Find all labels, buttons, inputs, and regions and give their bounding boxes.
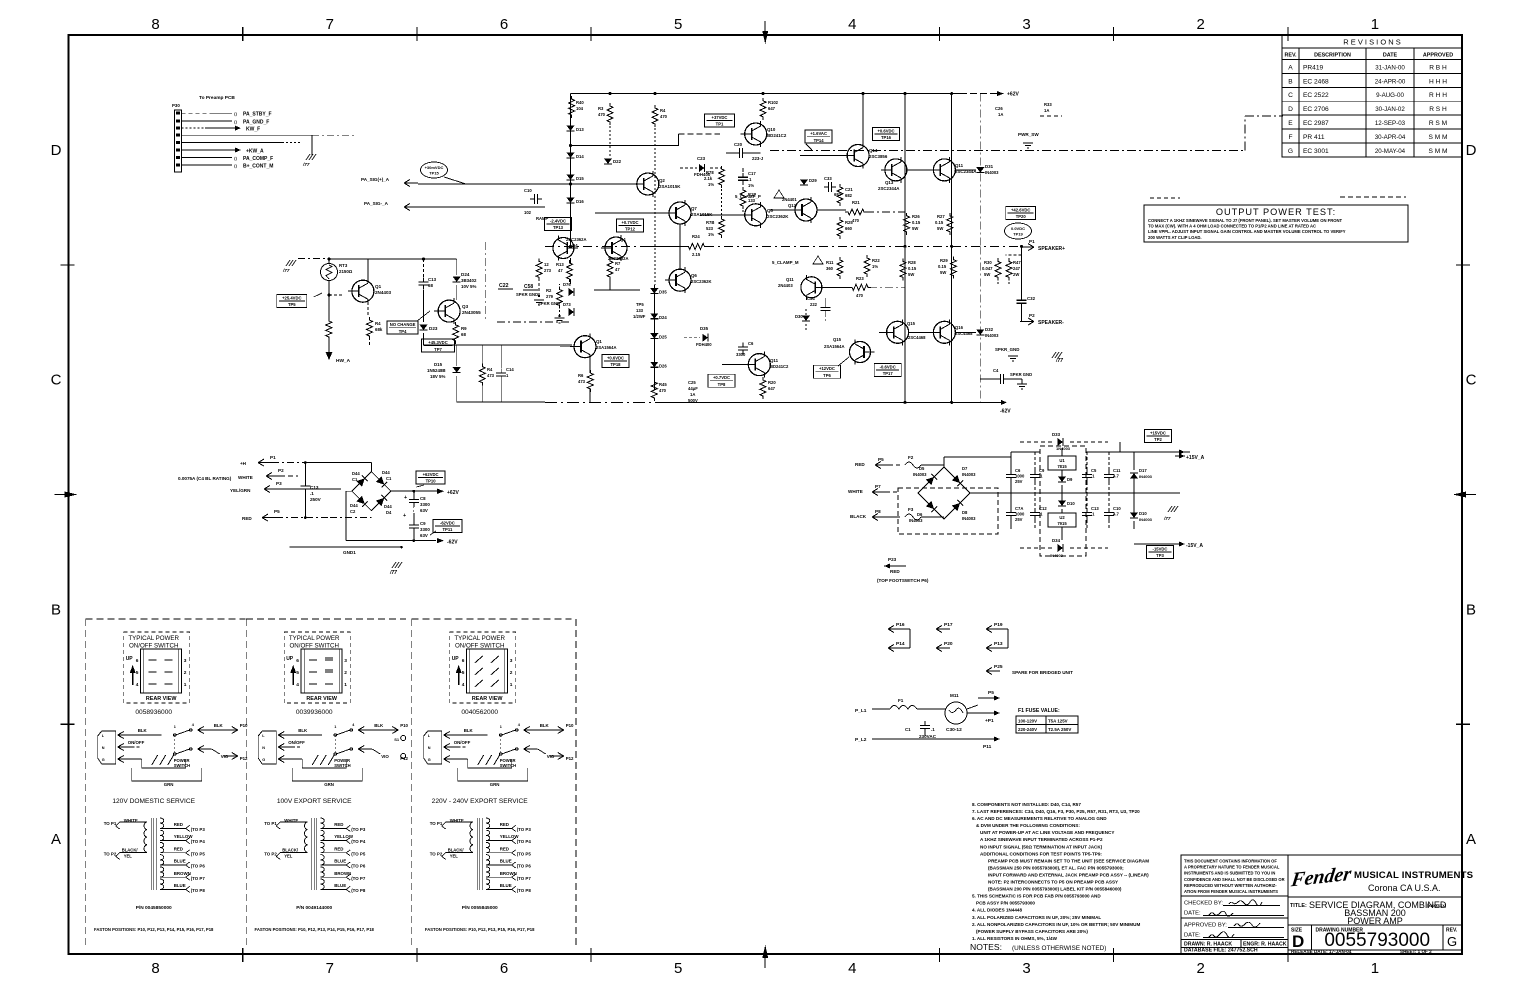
svg-text:3300: 3300 <box>420 502 430 507</box>
svg-text:P19: P19 <box>994 622 1003 628</box>
svg-text:TP4: TP4 <box>399 329 407 334</box>
svg-text:GRN: GRN <box>164 782 174 787</box>
svg-text:Q4: Q4 <box>620 237 626 242</box>
svg-text:D: D <box>1288 106 1293 113</box>
svg-text:TP19: TP19 <box>1013 232 1023 237</box>
svg-text:BLUE: BLUE <box>334 859 346 864</box>
svg-text:3: 3 <box>344 658 347 664</box>
svg-text:250V: 250V <box>310 497 322 502</box>
svg-text:2: 2 <box>510 670 513 676</box>
svg-text:D29: D29 <box>809 178 817 183</box>
svg-text:NO CHANGE: NO CHANGE <box>390 322 416 327</box>
svg-text:P17: P17 <box>944 622 953 628</box>
svg-text:D25: D25 <box>659 335 667 340</box>
svg-text:Q11: Q11 <box>786 277 794 282</box>
svg-text:R78: R78 <box>706 170 714 175</box>
svg-text:BLACK/: BLACK/ <box>122 847 139 852</box>
svg-text:247: 247 <box>1013 266 1021 271</box>
svg-text:2SC4468: 2SC4468 <box>955 331 973 336</box>
svg-text:3300: 3300 <box>420 527 430 532</box>
svg-text:FASTON POSITIONS: P10, P12, P1: FASTON POSITIONS: P10, P12, P13, P14, P1… <box>255 927 375 932</box>
svg-text:133: 133 <box>636 308 644 313</box>
svg-text:100-120V: 100-120V <box>1018 719 1037 724</box>
svg-text:7: 7 <box>326 16 334 33</box>
svg-text:C32: C32 <box>1027 296 1036 301</box>
svg-text:D15: D15 <box>434 362 443 367</box>
svg-text:YEL/GRN: YEL/GRN <box>230 488 251 493</box>
svg-text:4: 4 <box>136 682 139 688</box>
svg-text:P13: P13 <box>994 641 1003 647</box>
svg-text:BLUE: BLUE <box>500 883 512 888</box>
svg-text:68: 68 <box>428 283 433 288</box>
svg-text:R27: R27 <box>937 214 945 219</box>
svg-text:D7: D7 <box>962 466 968 471</box>
svg-text:+62V: +62V <box>447 490 459 496</box>
svg-text:C: C <box>51 372 62 389</box>
svg-text:D24: D24 <box>659 315 667 320</box>
svg-text:RED: RED <box>334 822 343 827</box>
svg-text:R33: R33 <box>1044 102 1052 107</box>
svg-text:0.15: 0.15 <box>912 220 921 225</box>
svg-text:⟨⟩: ⟨⟩ <box>234 119 238 124</box>
svg-text:10V 5%: 10V 5% <box>461 284 476 289</box>
svg-text:C6: C6 <box>1015 468 1021 473</box>
svg-text:EC 2987: EC 2987 <box>1303 120 1329 127</box>
svg-text:IN4003: IN4003 <box>985 170 999 175</box>
svg-text:5_CLAMP_M: 5_CLAMP_M <box>772 260 799 265</box>
svg-text:PA_COMP_F: PA_COMP_F <box>243 156 273 162</box>
svg-text:D44: D44 <box>382 470 390 475</box>
svg-text:INPUT FORWARD AND EXTERNAL JAC: INPUT FORWARD AND EXTERNAL JACK PREAMP P… <box>988 873 1149 878</box>
svg-text:D44: D44 <box>384 504 392 509</box>
svg-text:+0.6VDC: +0.6VDC <box>607 355 624 360</box>
svg-text:HW_A: HW_A <box>336 358 351 364</box>
svg-text:R102: R102 <box>768 100 779 105</box>
svg-text:Q11: Q11 <box>770 358 779 363</box>
svg-text:2.15: 2.15 <box>692 252 701 257</box>
svg-text:R26: R26 <box>912 214 920 219</box>
svg-text:YEL: YEL <box>124 853 133 858</box>
svg-text:ON/OFF: ON/OFF <box>454 740 471 745</box>
svg-text:7. LAST REFERENCES: C34, D40,: 7. LAST REFERENCES: C34, D40, Q16, F3, P… <box>972 809 1140 814</box>
svg-text:TITLE:: TITLE: <box>1290 903 1307 909</box>
svg-text:P/N 0045850000: P/N 0045850000 <box>136 905 172 911</box>
svg-text:3. ALL POLARIZED CAPACITORS IN: 3. ALL POLARIZED CAPACITORS IN UF, 20%; … <box>972 915 1101 920</box>
svg-text:D32: D32 <box>985 327 994 332</box>
svg-text:A 1KHZ SINEWAVE INPUT TERMINAT: A 1KHZ SINEWAVE INPUT TERMINATED ACROSS … <box>980 837 1103 842</box>
svg-text:-0.6VDC: -0.6VDC <box>880 364 896 369</box>
svg-text:R7B: R7B <box>706 220 714 225</box>
svg-text:D4: D4 <box>386 510 392 515</box>
svg-text:D16: D16 <box>576 199 584 204</box>
svg-text:C10: C10 <box>524 188 532 193</box>
svg-text:D23: D23 <box>429 326 438 331</box>
svg-text:0.15: 0.15 <box>908 266 917 271</box>
svg-text:Q10: Q10 <box>767 127 776 132</box>
svg-text:523: 523 <box>706 226 714 231</box>
svg-text:P12: P12 <box>566 756 574 761</box>
svg-text:8: 8 <box>151 16 159 33</box>
svg-text:ON/OFF: ON/OFF <box>128 740 145 745</box>
svg-text:P10: P10 <box>240 723 248 728</box>
svg-text:0055793000: 0055793000 <box>1324 930 1430 951</box>
svg-text:DATE: DATE <box>1383 52 1398 58</box>
svg-text:1: 1 <box>510 682 513 688</box>
svg-text:C9: C9 <box>420 521 426 526</box>
svg-text:4.7: 4.7 <box>1113 473 1119 478</box>
svg-text:-2.4VDC: -2.4VDC <box>550 218 566 223</box>
svg-text:(TO P8: (TO P8 <box>517 888 532 893</box>
svg-text:+37VDC: +37VDC <box>712 115 728 120</box>
svg-text:FASTON POSITIONS: P10, P12, P1: FASTON POSITIONS: P10, P12, P13, P15, P1… <box>425 927 535 932</box>
svg-text:0.047: 0.047 <box>982 266 993 271</box>
svg-text:PA_SIG(+)_A: PA_SIG(+)_A <box>361 177 390 182</box>
svg-text:D17: D17 <box>1139 468 1147 473</box>
svg-text:MUSICAL INSTRUMENTS: MUSICAL INSTRUMENTS <box>1354 870 1474 881</box>
svg-text:D10: D10 <box>1067 501 1075 506</box>
svg-text:C6: C6 <box>748 341 754 346</box>
svg-text:5W: 5W <box>912 226 918 231</box>
svg-text:Q13: Q13 <box>885 180 894 185</box>
svg-text:R28: R28 <box>908 260 916 265</box>
svg-text:S1: S1 <box>394 737 400 742</box>
svg-text:P3: P3 <box>276 481 282 486</box>
svg-text:(TO P6: (TO P6 <box>191 864 206 869</box>
svg-text:1%: 1% <box>748 183 754 188</box>
svg-text:1A: 1A <box>1044 108 1049 113</box>
svg-text:Q1: Q1 <box>375 284 382 289</box>
svg-text:5: 5 <box>296 670 299 676</box>
svg-text:PREAMP PCB MUST REMAIN SET TO: PREAMP PCB MUST REMAIN SET TO THE UNIT (… <box>988 858 1149 863</box>
svg-text:682: 682 <box>845 193 853 198</box>
svg-text:3: 3 <box>1022 16 1030 33</box>
svg-text:R4: R4 <box>375 321 381 326</box>
svg-text:6: 6 <box>500 960 508 977</box>
svg-text:+KW_A: +KW_A <box>246 149 264 155</box>
svg-text:P/N 0049144000: P/N 0049144000 <box>296 905 332 911</box>
svg-text:4.7: 4.7 <box>1113 511 1119 516</box>
svg-text:2N43055: 2N43055 <box>462 310 481 315</box>
svg-text:TP18: TP18 <box>610 362 621 367</box>
svg-text:(TO P3: (TO P3 <box>351 827 366 832</box>
svg-text:2SA1015K: 2SA1015K <box>659 184 681 189</box>
svg-text:D30: D30 <box>795 314 803 319</box>
svg-text:(TO P4: (TO P4 <box>351 839 366 844</box>
svg-text:(xxxxxxx): (xxxxxxx) <box>1427 903 1447 908</box>
svg-text:REV.: REV. <box>1446 928 1458 934</box>
svg-text:D10: D10 <box>1139 511 1147 516</box>
svg-text:12-SEP-03: 12-SEP-03 <box>1375 120 1406 127</box>
svg-text:R7: R7 <box>615 261 621 266</box>
svg-text:3: 3 <box>184 658 187 664</box>
svg-text:63V: 63V <box>420 508 428 513</box>
svg-text:GRN: GRN <box>490 782 500 787</box>
svg-text:(TO P5: (TO P5 <box>351 851 366 856</box>
svg-text:ATION FROM FENDER MUSICAL INST: ATION FROM FENDER MUSICAL INSTRUMENTS <box>1184 889 1278 894</box>
svg-text:G: G <box>428 758 431 762</box>
svg-text:2.1k: 2.1k <box>704 176 713 181</box>
svg-text:R30: R30 <box>984 260 992 265</box>
svg-text:C22: C22 <box>499 283 509 289</box>
svg-text:D73: D73 <box>563 302 571 307</box>
svg-text:Q15: Q15 <box>907 321 916 326</box>
svg-text:647: 647 <box>768 386 776 391</box>
svg-text:SPKR GND: SPKR GND <box>1010 372 1032 377</box>
svg-text:TYPICAL POWER: TYPICAL POWER <box>128 635 179 642</box>
svg-text:YEL: YEL <box>450 853 459 858</box>
svg-text:Q11: Q11 <box>955 163 964 168</box>
svg-text:PA_STBY_F: PA_STBY_F <box>243 112 272 118</box>
svg-text:R45: R45 <box>659 382 667 387</box>
svg-text:UNIT AT POWER-UP AT AC LINE VO: UNIT AT POWER-UP AT AC LINE VOLTAGE AND … <box>980 830 1114 835</box>
svg-text:R S M: R S M <box>1429 120 1447 127</box>
svg-text:SWITCH: SWITCH <box>500 763 517 768</box>
svg-text:P23: P23 <box>888 557 897 562</box>
svg-text:(TO P4: (TO P4 <box>191 839 206 844</box>
svg-text:-62V: -62V <box>447 540 458 546</box>
svg-text:6: 6 <box>500 16 508 33</box>
svg-text:2N4403: 2N4403 <box>375 290 392 295</box>
svg-text:DATE:: DATE: <box>1184 911 1201 917</box>
svg-text:S M M: S M M <box>1428 134 1447 141</box>
svg-text:2SC2362K: 2SC2362K <box>767 214 789 219</box>
svg-text:5: 5 <box>674 960 682 977</box>
svg-text:B+_CONT_M: B+_CONT_M <box>243 164 273 170</box>
svg-text:31-JAN-00: 31-JAN-00 <box>1375 64 1405 71</box>
svg-text:P7: P7 <box>875 484 881 489</box>
svg-text:TYPICAL POWER: TYPICAL POWER <box>289 635 340 642</box>
svg-text:C1: C1 <box>352 477 358 482</box>
svg-text:GND1: GND1 <box>343 550 356 555</box>
svg-text:1: 1 <box>344 682 347 688</box>
svg-text:30-JAN-02: 30-JAN-02 <box>1375 106 1405 113</box>
svg-text:(BASSMAN 200 P/N 0055793000): (BASSMAN 200 P/N 0055793000) LABEL KIT P… <box>988 887 1122 892</box>
svg-text:EC 2468: EC 2468 <box>1303 78 1329 85</box>
svg-text:R22: R22 <box>872 258 880 263</box>
svg-text:D44: D44 <box>350 503 358 508</box>
svg-text:+0.6VDC: +0.6VDC <box>877 128 894 133</box>
svg-text:+H: +H <box>240 461 247 466</box>
svg-text:+25.4VDC: +25.4VDC <box>282 295 301 300</box>
svg-text:CONNECT A 1KHZ SINEWAVE SIGNAL: CONNECT A 1KHZ SINEWAVE SIGNAL TO J7 (FR… <box>1148 218 1343 223</box>
svg-text:3B3402: 3B3402 <box>461 278 477 283</box>
svg-text:Q7: Q7 <box>691 206 697 211</box>
svg-text:SHEET: 1 OF 2: SHEET: 1 OF 2 <box>1400 949 1432 954</box>
svg-text:C7A: C7A <box>1015 506 1023 511</box>
svg-text:M11: M11 <box>950 693 959 698</box>
svg-text:C25: C25 <box>688 380 696 385</box>
svg-text:473: 473 <box>578 379 586 384</box>
svg-text:D44: D44 <box>352 471 360 476</box>
svg-text:2. ALL NONPOLARIZED CAPACITORS: 2. ALL NONPOLARIZED CAPACITORS IN UF, 10… <box>972 922 1140 927</box>
svg-text:+45.3VDC: +45.3VDC <box>428 340 447 345</box>
svg-text:G: G <box>262 758 265 762</box>
svg-text:2SC2362K: 2SC2362K <box>691 279 712 284</box>
svg-text:U1: U1 <box>1059 458 1065 463</box>
svg-text:PR419: PR419 <box>1303 64 1323 71</box>
svg-text:P10: P10 <box>566 723 574 728</box>
svg-text:/77: /77 <box>282 268 290 273</box>
svg-text:G: G <box>1447 934 1457 949</box>
svg-text:R24: R24 <box>692 234 700 239</box>
svg-text:TO P1: TO P1 <box>104 821 117 826</box>
svg-text:PWR_SW: PWR_SW <box>1018 132 1039 137</box>
svg-text:N: N <box>428 746 431 750</box>
svg-text:647: 647 <box>768 106 776 111</box>
svg-text:5W: 5W <box>940 270 946 275</box>
svg-text:1A: 1A <box>690 392 695 397</box>
svg-text:R20: R20 <box>768 380 776 385</box>
svg-text:1: 1 <box>1371 960 1379 977</box>
svg-text:2SC3856: 2SC3856 <box>869 154 888 159</box>
svg-text:1%: 1% <box>708 232 714 237</box>
svg-text:SWITCH: SWITCH <box>174 763 191 768</box>
svg-text:1: 1 <box>1371 16 1379 33</box>
svg-text:P16: P16 <box>896 622 905 628</box>
svg-text:+42.6VDC: +42.6VDC <box>1011 207 1030 212</box>
svg-text:24-APR-00: 24-APR-00 <box>1375 78 1406 85</box>
svg-text:20-MAY-04: 20-MAY-04 <box>1375 148 1406 155</box>
svg-text:200 WATTS AT CLIP LOAD.: 200 WATTS AT CLIP LOAD. <box>1148 235 1202 240</box>
svg-text:P5: P5 <box>988 690 994 696</box>
svg-text:+0.7VDC: +0.7VDC <box>713 375 730 380</box>
svg-text:TP7: TP7 <box>434 347 442 352</box>
svg-text:C23: C23 <box>697 156 706 161</box>
svg-text:PR 411: PR 411 <box>1303 134 1325 141</box>
svg-text:0.15: 0.15 <box>938 264 947 269</box>
svg-text:1A: 1A <box>998 112 1003 117</box>
svg-text:(TO P8: (TO P8 <box>191 888 206 893</box>
svg-text:Q1: Q1 <box>596 339 602 344</box>
svg-text:RED: RED <box>500 822 509 827</box>
svg-text:25V: 25V <box>1015 479 1023 484</box>
svg-text:C26: C26 <box>995 106 1003 111</box>
svg-text:BLUE: BLUE <box>174 883 186 888</box>
svg-text:TP13: TP13 <box>553 225 564 230</box>
svg-text:R11: R11 <box>826 260 834 265</box>
svg-text:P5: P5 <box>878 457 884 462</box>
svg-text:5W: 5W <box>984 272 990 277</box>
svg-text:2SC4468: 2SC4468 <box>908 335 926 340</box>
svg-text:8: 8 <box>151 960 159 977</box>
svg-text:R47: R47 <box>1013 260 1021 265</box>
svg-text:UP: UP <box>452 656 460 662</box>
svg-text:B: B <box>1466 601 1476 618</box>
svg-text:APPROVED BY:: APPROVED BY: <box>1184 923 1227 929</box>
svg-text:RED: RED <box>855 462 865 467</box>
svg-text:CHECKED BY:: CHECKED BY: <box>1184 901 1223 907</box>
svg-text:D22: D22 <box>613 159 622 164</box>
svg-text:TP17: TP17 <box>883 371 894 376</box>
svg-text:(TO P5: (TO P5 <box>517 851 532 856</box>
svg-text:0058936000: 0058936000 <box>135 709 172 716</box>
svg-text:G: G <box>102 758 105 762</box>
svg-text:-62V: -62V <box>1000 408 1011 414</box>
svg-text:IN4003: IN4003 <box>909 518 923 523</box>
svg-text:F: F <box>1288 134 1292 141</box>
svg-text:0.15: 0.15 <box>935 220 944 225</box>
svg-text:WHITE: WHITE <box>848 489 863 494</box>
svg-text:(TO P3: (TO P3 <box>517 827 532 832</box>
svg-text:5W: 5W <box>937 226 943 231</box>
svg-text:YEL: YEL <box>284 853 293 858</box>
svg-text:UP: UP <box>286 656 294 662</box>
svg-text:1N4003: 1N4003 <box>1056 446 1071 451</box>
svg-text:+62VDC: +62VDC <box>423 472 439 477</box>
svg-text:TP5: TP5 <box>288 302 296 307</box>
svg-text:RED: RED <box>174 846 183 851</box>
svg-text:SPARE FOR BRIDGED UNIT: SPARE FOR BRIDGED UNIT <box>1012 670 1073 675</box>
svg-text:-15V_A: -15V_A <box>1186 543 1203 549</box>
svg-text:TP20: TP20 <box>1016 214 1027 219</box>
svg-text:6. AC AND DC MEASUREMENTS RELA: 6. AC AND DC MEASUREMENTS RELATIVE TO AN… <box>972 816 1107 821</box>
svg-text:102: 102 <box>524 210 532 215</box>
svg-text:C13: C13 <box>428 277 437 282</box>
svg-text:TP10: TP10 <box>426 479 437 484</box>
svg-text:FDH400: FDH400 <box>696 342 712 347</box>
svg-text:(TO P4: (TO P4 <box>517 839 532 844</box>
svg-text:R23: R23 <box>856 276 864 281</box>
svg-text:.1: .1 <box>931 727 935 732</box>
svg-text:D33: D33 <box>1052 432 1061 437</box>
svg-text:(UNLESS OTHERWISE NOTED): (UNLESS OTHERWISE NOTED) <box>1012 945 1106 952</box>
svg-text:D14: D14 <box>576 154 584 159</box>
svg-text:NOTE: P2 INTERCONNECTS TO P5 O: NOTE: P2 INTERCONNECTS TO P5 ON PREAMP P… <box>988 880 1118 885</box>
svg-text:SPEAKER-: SPEAKER- <box>1038 320 1064 326</box>
svg-text:RED: RED <box>890 569 900 574</box>
svg-text:REAR VIEW: REAR VIEW <box>146 696 177 702</box>
svg-text:P12: P12 <box>240 756 248 761</box>
svg-text:TP2: TP2 <box>1154 437 1162 442</box>
svg-text:DATABASE FILE: 247752.SCH: DATABASE FILE: 247752.SCH <box>1184 948 1258 954</box>
svg-text:ON/OFF: ON/OFF <box>288 740 305 745</box>
svg-text:TP12: TP12 <box>625 227 636 232</box>
svg-text:APPROVED: APPROVED <box>1423 52 1453 58</box>
svg-text:1: 1 <box>184 682 187 688</box>
svg-text:SPKR GND: SPKR GND <box>516 292 538 297</box>
svg-text:P25: P25 <box>994 664 1003 670</box>
svg-text:ON/OFF SWITCH: ON/OFF SWITCH <box>289 643 339 650</box>
svg-text:4: 4 <box>296 682 299 688</box>
svg-text:C34: C34 <box>807 296 815 301</box>
svg-text:A: A <box>1288 64 1293 71</box>
svg-text:C: C <box>1288 92 1293 99</box>
svg-text:25V: 25V <box>1015 517 1023 522</box>
svg-text:D35: D35 <box>659 290 667 295</box>
svg-text:VIO: VIO <box>381 754 389 759</box>
svg-text:230VAC: 230VAC <box>919 734 937 739</box>
svg-text:C13: C13 <box>1091 506 1099 511</box>
svg-text:C1: C1 <box>905 727 911 732</box>
svg-text:R21: R21 <box>852 200 860 205</box>
svg-text:220-240V: 220-240V <box>1018 727 1037 732</box>
svg-text:CONFIDENCE AND SHALL NOT BE DI: CONFIDENCE AND SHALL NOT BE DISCLOSED OR <box>1184 877 1285 882</box>
svg-text:REAR VIEW: REAR VIEW <box>472 696 503 702</box>
svg-text:BLK: BLK <box>464 728 474 733</box>
svg-text:D34: D34 <box>1052 538 1061 543</box>
svg-text:D: D <box>1466 142 1477 159</box>
svg-text:63V: 63V <box>420 533 428 538</box>
svg-text:C30-12: C30-12 <box>946 727 962 733</box>
svg-text:R9: R9 <box>461 326 467 331</box>
svg-text:1. ALL RESISTORS IN OHMS, 5%,: 1. ALL RESISTORS IN OHMS, 5%, 1/4W <box>972 936 1058 941</box>
svg-text:D9: D9 <box>1067 477 1073 482</box>
svg-text:P2: P2 <box>1029 313 1035 318</box>
svg-text:(TO P7: (TO P7 <box>191 876 206 881</box>
svg-text:SPKR GND: SPKR GND <box>538 301 560 306</box>
svg-text:2SA1564A: 2SA1564A <box>824 344 845 349</box>
svg-text:+12VDC: +12VDC <box>819 366 835 371</box>
